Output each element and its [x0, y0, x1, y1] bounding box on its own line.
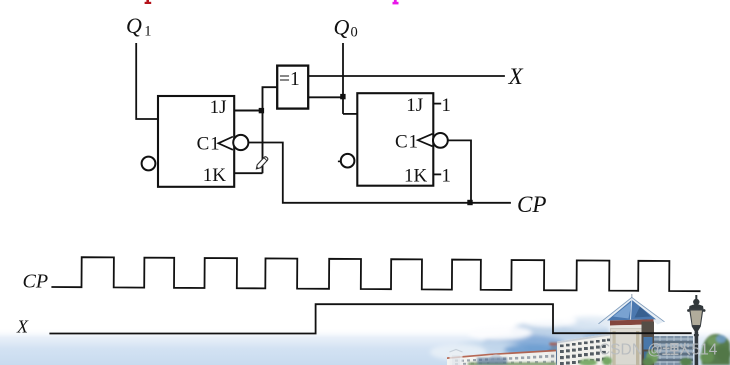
flip-flop FF2 box — [357, 93, 433, 186]
pagoda tower — [599, 294, 665, 365]
svg-text:1J: 1J — [210, 97, 227, 118]
svg-text:Q: Q — [126, 13, 142, 38]
flip-flop FF1 box — [158, 96, 234, 187]
svg-text:=1: =1 — [279, 69, 300, 90]
gate tower left — [450, 350, 504, 365]
CSDN watermark — [599, 342, 718, 359]
right glass building — [654, 334, 693, 365]
FF1 clock chevron — [218, 137, 233, 150]
svg-text:X: X — [508, 64, 524, 89]
svg-text:1: 1 — [144, 24, 151, 40]
FF2 clock bubble — [433, 133, 448, 148]
svg-text:1J: 1J — [406, 95, 423, 116]
FF2 set bubble (left) with stub — [338, 160, 341, 162]
green strip in front of long building — [468, 358, 556, 365]
wire U1 to X line — [308, 75, 505, 77]
wire U1 to Q0 node — [308, 96, 343, 98]
wire J-K tie vertical — [263, 87, 278, 173]
svg-text:1: 1 — [441, 166, 451, 187]
FF2 1J constant stub — [433, 103, 441, 105]
red cropped char top — [145, 0, 152, 4]
maroon fascia — [610, 319, 654, 325]
antenna — [631, 294, 633, 300]
pen cursor artifact — [255, 156, 269, 170]
svg-text:C1: C1 — [395, 131, 419, 152]
junction dot Q0 node — [340, 94, 345, 99]
dark brown column — [642, 322, 655, 365]
xor gate U1 (=1) — [277, 66, 308, 109]
glass pyramid — [606, 299, 657, 321]
svg-text:1: 1 — [441, 95, 451, 116]
long low building — [447, 294, 730, 365]
glyph huo (火) approximation — [681, 343, 690, 355]
svg-text:1K: 1K — [203, 165, 227, 186]
svg-text:CSDN @: CSDN @ — [599, 342, 663, 359]
wire Q0 lead — [342, 43, 344, 114]
dark shadow building sliver left of tall building — [549, 343, 558, 365]
wire FF1 1K to node — [234, 172, 262, 174]
CP clock waveform — [51, 257, 700, 291]
FF2 clock chevron — [418, 134, 433, 147]
svg-text:X: X — [16, 316, 29, 336]
X waveform — [49, 304, 691, 333]
svg-text:Q: Q — [334, 15, 350, 40]
FF1 clock bubble — [233, 135, 248, 150]
dome structure — [489, 355, 503, 364]
photo sky clouds — [430, 315, 619, 360]
junction dot 1J node — [259, 108, 264, 113]
wire Q1 lead — [136, 43, 158, 119]
FF1 set bubble (left) — [142, 157, 156, 171]
wire FF1 C1 to CP — [248, 143, 511, 203]
trees right — [579, 334, 730, 365]
svg-text:514: 514 — [692, 342, 718, 359]
svg-text:0: 0 — [351, 25, 358, 41]
wire FF2 C1 to CP — [448, 140, 471, 202]
svg-text:C1: C1 — [197, 134, 221, 155]
tall white building — [557, 334, 611, 365]
svg-text:1K: 1K — [404, 166, 428, 187]
magenta cropped char top — [393, 0, 399, 4]
svg-text:CP: CP — [517, 192, 546, 217]
street lamp — [687, 295, 705, 365]
glyph mai (埋) approximation — [662, 344, 678, 355]
svg-text:CP: CP — [23, 271, 49, 293]
body — [611, 329, 643, 365]
wire FF1 1J to node — [234, 110, 262, 112]
FF2 1K constant stub — [433, 173, 441, 175]
eave outline — [599, 298, 665, 327]
junction dot CP node — [467, 200, 472, 205]
